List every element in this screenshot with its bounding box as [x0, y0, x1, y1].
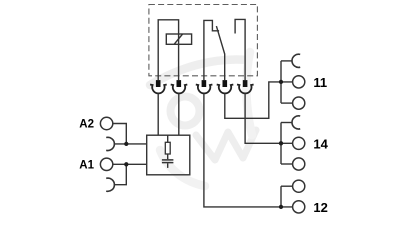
wire: terminal 1 to RC box: [157, 94, 159, 136]
terminal A1 lower-level arc: [106, 178, 114, 191]
svg-text:14: 14: [313, 137, 328, 152]
terminal pin 1: [150, 80, 167, 93]
junction 14: [279, 141, 283, 145]
bus 14: [280, 123, 282, 165]
terminal A1 group: [100, 158, 146, 191]
svg-text:12: 12: [313, 200, 327, 215]
bus 12: [280, 186, 282, 207]
terminal pin 4: [217, 80, 234, 93]
terminal pin 3: [196, 80, 213, 93]
wire A2: [113, 124, 127, 144]
relay coil: [166, 34, 191, 44]
bus 11: [280, 61, 282, 103]
upper-level arc 14: [292, 116, 300, 129]
terminal 12 circle: [293, 201, 305, 213]
background watermark: [150, 52, 256, 186]
junction A2: [124, 142, 128, 146]
relay module dashed outline: [149, 5, 258, 76]
wire: terminal 5 to node 14: [245, 94, 293, 144]
svg-text:A1: A1: [79, 159, 94, 171]
junction 12: [279, 205, 283, 209]
junction A1: [124, 162, 128, 166]
upper-level arc 11: [292, 54, 300, 67]
terminal 14 circle: [293, 137, 305, 149]
wire A1: [113, 163, 147, 165]
NO contact (to terminal 5): [235, 19, 245, 80]
terminal circle below 14: [293, 158, 305, 170]
node 12 group: [281, 180, 305, 213]
terminal A1 circle: [100, 158, 112, 170]
terminal circle above 12: [293, 180, 305, 192]
terminal A2 circle: [100, 117, 112, 129]
svg-text:A2: A2: [79, 119, 94, 131]
node 14 group: [281, 116, 305, 170]
NC contact (to terminal 3): [204, 20, 219, 80]
wire: coil loop from terminal pin 1 up/over to coil: [158, 20, 178, 80]
terminal 11 circle: [293, 76, 305, 88]
terminal A2 lower-level arc: [106, 137, 114, 150]
terminal circle below 11: [293, 97, 305, 109]
junction 11: [279, 80, 283, 84]
terminal pins and sockets row: [150, 80, 254, 93]
terminal A2 group: [100, 117, 146, 150]
moving contact arm (to terminal 4): [216, 26, 224, 80]
terminal pin 5: [237, 80, 254, 93]
node 11 group: [281, 54, 305, 109]
resistor R: [167, 135, 169, 142]
svg-text:11: 11: [313, 75, 327, 90]
wire: terminal 4 to node 11: [225, 82, 293, 118]
terminal pin 2: [171, 80, 188, 93]
capacitor C: [167, 154, 169, 159]
wire: terminal 3 to node 12: [204, 94, 293, 207]
wire: terminal 2 to RC box: [178, 94, 180, 136]
RC input box: [147, 135, 190, 175]
